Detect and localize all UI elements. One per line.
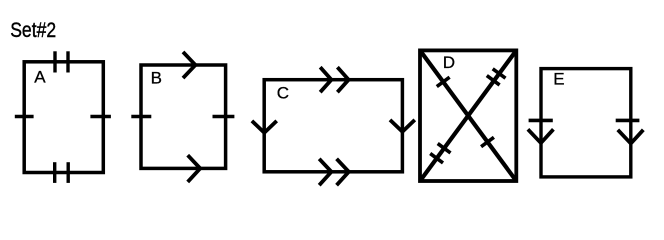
tick A top 2 [66, 51, 69, 72]
arrow C left [252, 121, 277, 133]
svg-text:A: A [34, 68, 46, 87]
arrow E right [618, 130, 644, 144]
rectangle E [541, 69, 631, 177]
tick A right [90, 115, 111, 118]
tick D diag1 upper [437, 77, 450, 86]
arrow B top [183, 52, 195, 78]
tick D diag2 lower 2 [438, 144, 451, 153]
tick A top 1 [53, 51, 56, 72]
tick E left [529, 119, 553, 123]
svg-text:C: C [277, 84, 289, 103]
tick D diag2 lower 1 [430, 154, 443, 163]
arrow B bottom [188, 155, 201, 182]
arrow C top 1 [320, 67, 331, 92]
tick D diag2 upper 2 [493, 69, 506, 78]
tick A bottom 2 [66, 162, 69, 183]
rectangle D [420, 50, 516, 181]
tick D diag1 lower [481, 137, 494, 146]
arrow C right [390, 120, 415, 132]
arrow C bottom 2 [337, 159, 349, 185]
rectangle A [24, 62, 103, 173]
svg-text:Set#2: Set#2 [10, 19, 56, 42]
tick B right [213, 115, 235, 118]
tick D diag2 upper 1 [487, 76, 500, 85]
tick A bottom 1 [53, 162, 56, 183]
tick A left [15, 115, 34, 118]
svg-text:E: E [553, 69, 564, 88]
svg-text:B: B [151, 68, 162, 87]
arrow E left [528, 129, 554, 143]
tick B left [131, 115, 151, 118]
diagonal D TR-BL [420, 50, 516, 181]
tick E right [616, 119, 640, 123]
svg-text:D: D [443, 53, 455, 72]
diagonal D TL-BR [420, 50, 516, 181]
rectangle B [141, 65, 226, 168]
arrow C top 2 [337, 67, 348, 92]
arrow C bottom 1 [319, 159, 331, 185]
rectangle C [264, 80, 402, 172]
